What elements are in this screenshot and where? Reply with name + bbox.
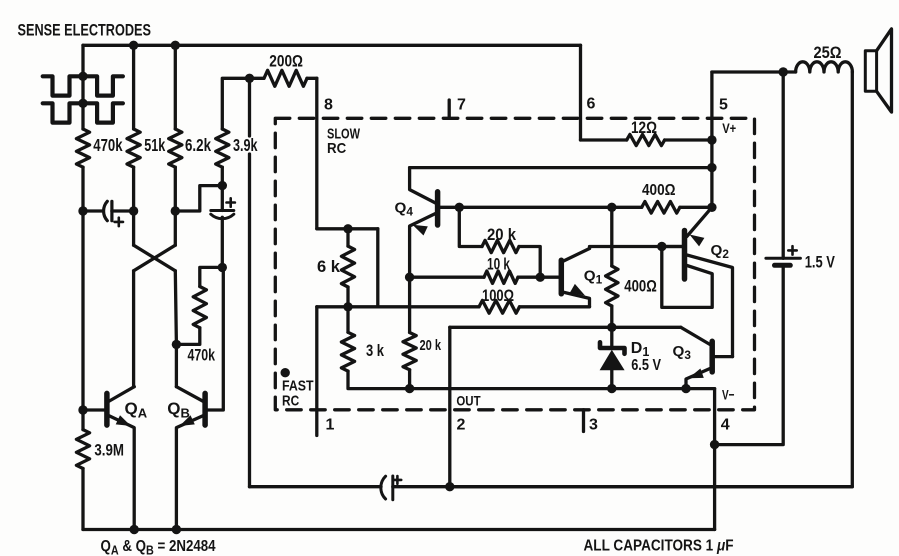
transistor QB base wire bbox=[208, 267, 224, 410]
junction 470k / C1 bbox=[78, 206, 87, 215]
svg-text:6.2k: 6.2k bbox=[185, 135, 211, 155]
resistor 3k bbox=[346, 307, 349, 333]
junction 200 ohm / 3.9k / long vertical bbox=[245, 74, 254, 83]
pin 1 wire (fast RC) bbox=[315, 307, 318, 436]
transistor Q4 collector bbox=[410, 168, 436, 203]
resistor 12 ohm bbox=[581, 138, 627, 141]
wire (Q1 collector to Q2 base) bbox=[590, 247, 683, 249]
wire (long vertical to bottom capacitor rail) bbox=[248, 154, 251, 487]
svg-text:20 k: 20 k bbox=[487, 226, 517, 244]
wire (electrode column through combs) bbox=[81, 76, 84, 129]
svg-text:8: 8 bbox=[324, 97, 333, 114]
svg-text:1.5 V: 1.5 V bbox=[805, 253, 835, 272]
wire (cross-couple 51k column upper) bbox=[132, 211, 135, 245]
transistor QB collector bbox=[176, 387, 203, 402]
wire (long vertical upper) bbox=[248, 78, 251, 136]
transistor Q3 collector bbox=[681, 327, 710, 344]
wire (electrode column top) bbox=[81, 45, 84, 76]
speaker (driver box) bbox=[865, 51, 876, 92]
pin 3 tick bbox=[582, 410, 585, 432]
junction 3.9k / C2 top bbox=[218, 181, 227, 190]
svg-text:4: 4 bbox=[721, 417, 730, 434]
junction 12 ohm / V+ line bbox=[707, 135, 716, 144]
wire (V- row) bbox=[410, 387, 715, 390]
capacitor C1 plus sign bbox=[115, 218, 123, 226]
transistor Q2 emitter bbox=[687, 207, 712, 236]
resistor 100 ohm bbox=[317, 305, 479, 308]
junction on bottom comb bbox=[78, 99, 87, 108]
wire (jog pin8 row down to 100ohm row) bbox=[376, 229, 379, 307]
transistor Q2 collector 1 bbox=[687, 255, 733, 357]
capacitor C3 (1uF) wire left bbox=[250, 485, 382, 488]
capacitor C2 plus sign bbox=[227, 198, 235, 206]
wire (jog 3.9k node to 6.2k node) bbox=[175, 186, 222, 211]
wire (battery top to 25 ohm junction) bbox=[782, 72, 785, 258]
transistor Q4 emitter arrow bbox=[413, 225, 428, 236]
transistor QB bar bbox=[202, 393, 208, 425]
svg-text:2: 2 bbox=[457, 417, 466, 434]
wire (cross-couple diagonal A) bbox=[134, 245, 176, 271]
wire (6.2k bottom) bbox=[174, 167, 177, 211]
transistor Q4 base wire bbox=[440, 206, 459, 209]
junction C2 bottom / 470k-2 / QB base riser bbox=[218, 263, 227, 272]
wire (C2 bottom to 470k-2) bbox=[200, 267, 223, 286]
transistor Q1 collector bbox=[563, 249, 590, 262]
resistor 20k (vertical) bbox=[408, 277, 411, 332]
resistor 10k bbox=[410, 276, 484, 279]
junction V+ / internal top wire bbox=[707, 163, 716, 172]
wire (3.9k bottom to C2) bbox=[221, 167, 224, 185]
junction V+ / 400 ohm / Q2 emitter bbox=[707, 203, 716, 212]
svg-text:SENSE ELECTRODES: SENSE ELECTRODES bbox=[18, 21, 152, 40]
svg-text:V+: V+ bbox=[722, 120, 736, 136]
capacitor C2 straight plate bbox=[211, 209, 234, 212]
svg-text:3.9k: 3.9k bbox=[233, 135, 258, 155]
resistor 400 ohm (vertical) bbox=[610, 207, 613, 266]
junction on top comb bbox=[78, 72, 87, 81]
resistor 3.9M bbox=[76, 430, 89, 469]
wire (QA base junction to 3.9M) bbox=[81, 410, 84, 430]
battery B1 plus sign bbox=[788, 246, 796, 254]
junction 6k bottom / 3k top bbox=[343, 302, 352, 311]
junction 10k / 20k / Q1 base bbox=[536, 273, 545, 282]
capacitor C3 plus sign bbox=[394, 476, 402, 484]
svg-text:OUT: OUT bbox=[456, 394, 481, 409]
junction bottom rail / QB emitter bbox=[172, 525, 181, 534]
svg-text:470k: 470k bbox=[93, 135, 122, 155]
wire (pin8 row to 6k) bbox=[317, 227, 378, 230]
transistor Q3 emitter bbox=[686, 369, 710, 389]
wire (left column cap junction to QA base) bbox=[81, 211, 84, 410]
svg-text:6.5 V: 6.5 V bbox=[631, 357, 661, 374]
junction top rail / 6.2k bbox=[171, 41, 180, 50]
transistor QA collector bbox=[109, 387, 135, 402]
junction 25 ohm / battery bbox=[779, 67, 788, 76]
pin 7 tick bbox=[448, 100, 451, 118]
svg-text:400Ω: 400Ω bbox=[642, 182, 676, 199]
transistor Q2 collector 2 (to base loop) bbox=[662, 247, 712, 308]
wire (QA collector column) bbox=[132, 271, 136, 387]
svg-text:V−: V− bbox=[722, 387, 735, 403]
svg-text:3 k: 3 k bbox=[366, 342, 385, 360]
speaker (cone) bbox=[877, 29, 892, 112]
resistor 3.9k bbox=[216, 129, 229, 167]
transistor Q2 emitter arrow bbox=[690, 235, 705, 247]
svg-text:25Ω: 25Ω bbox=[814, 43, 842, 62]
transistor Q1 bar bbox=[559, 260, 565, 294]
pin 5 wire (V+ vertical) bbox=[710, 72, 713, 207]
svg-text:10 k: 10 k bbox=[487, 256, 511, 274]
capacitor C2 curved plate bbox=[211, 214, 234, 218]
resistor 470k (coupling) bbox=[193, 287, 206, 328]
capacitor C3 wire right bbox=[393, 485, 853, 488]
capacitor C3 curved plate bbox=[381, 476, 386, 499]
wire (3.9M to bottom rail) bbox=[81, 469, 84, 530]
junction 6.2k node bbox=[171, 206, 180, 215]
transistor Q3 emitter arrow bbox=[689, 369, 704, 379]
transistor Q3 bar bbox=[709, 341, 715, 372]
resistor 20k (horizontal) bbox=[459, 207, 482, 246]
diode D1 wire bottom bbox=[610, 370, 613, 388]
svg-text:200Ω: 200Ω bbox=[269, 51, 303, 70]
pin 8 wire (200 ohm into package) bbox=[315, 78, 318, 229]
IC package outline (dashed) bbox=[275, 118, 754, 410]
transistor QA emitter bbox=[109, 416, 135, 530]
capacitor C1 straight plate bbox=[110, 201, 113, 220]
svg-text:400Ω: 400Ω bbox=[624, 276, 657, 295]
junction bottom rail / QA emitter bbox=[130, 525, 139, 534]
junction 470k-2 / QB collector column bbox=[172, 340, 181, 349]
junction D1 bottom / V- row bbox=[607, 384, 616, 393]
capacitor C2 (1uF) wires bbox=[221, 186, 224, 211]
transistor Q4 bar bbox=[435, 192, 441, 225]
wire (3.9k column top to 200 ohm junction) bbox=[222, 78, 249, 129]
transistor Q2 bar bbox=[682, 231, 688, 280]
resistor 200 ohm bbox=[250, 77, 265, 80]
wire (OUT row) bbox=[450, 326, 681, 329]
wire (pin4 to battery column) bbox=[715, 267, 784, 445]
sense electrode (bottom comb) bbox=[43, 103, 123, 122]
node marker FAST RC bbox=[281, 368, 290, 377]
resistor 51k bbox=[127, 129, 140, 167]
capacitor C1 (1uF) curved plate bbox=[104, 201, 108, 220]
junction Q4 base row / 400 ohm vertical bbox=[607, 203, 616, 212]
transistor QA base wire bbox=[83, 408, 104, 411]
battery B1 positive plate bbox=[766, 257, 801, 260]
svg-text:RC: RC bbox=[327, 140, 346, 157]
svg-text:100Ω: 100Ω bbox=[482, 286, 514, 305]
junction QA base / left column bbox=[78, 405, 87, 414]
junction 10k / Q4 emitter column bbox=[405, 273, 414, 282]
svg-text:20 k: 20 k bbox=[420, 338, 442, 354]
pin 6 wire (top rail into package) bbox=[579, 45, 582, 140]
wire (Q4 base row) bbox=[459, 206, 612, 209]
pin 4 wire bbox=[713, 389, 716, 530]
wire (pin5 top to 25 ohm) bbox=[712, 70, 783, 73]
resistor 6k bbox=[346, 229, 349, 246]
wire (bottom rail) bbox=[83, 528, 715, 531]
diode D1 wire top bbox=[610, 327, 613, 346]
svg-text:51k: 51k bbox=[144, 135, 165, 155]
junction pin4 / battery return bbox=[710, 440, 719, 449]
resistor 400 ohm (to V+) bbox=[612, 206, 642, 209]
pin 2 wire (OUT) bbox=[448, 327, 451, 486]
battery B1 negative plate bbox=[775, 263, 791, 268]
transistor QA bar bbox=[104, 393, 110, 425]
diode D1 cathode bar bbox=[600, 342, 625, 354]
transistor Q1 emitter arrow bbox=[570, 284, 585, 296]
wire (internal top rail) bbox=[410, 166, 712, 169]
svg-text:12Ω: 12Ω bbox=[631, 118, 657, 137]
transistor Q1 emitter bbox=[563, 292, 590, 307]
transistor QB emitter arrow bbox=[180, 415, 195, 426]
svg-text:ALL CAPACITORS 1 μF: ALL CAPACITORS 1 μF bbox=[584, 538, 734, 555]
wire (470k bottom to cap junction) bbox=[81, 167, 84, 211]
junction 6k top bbox=[343, 224, 352, 233]
svg-text:3.9M: 3.9M bbox=[94, 441, 124, 460]
inductor 25 ohm (voice coil) bbox=[783, 70, 795, 73]
wire (cross-couple 6.2k column upper) bbox=[174, 211, 177, 245]
svg-text:RC: RC bbox=[282, 393, 299, 410]
transistor Q2 base wire bbox=[662, 245, 682, 248]
svg-text:6: 6 bbox=[587, 96, 596, 113]
junction C3 / pin 2 bbox=[445, 482, 454, 491]
wire (470k-2 bottom to QB collector column) bbox=[176, 328, 199, 345]
transistor Q4 emitter bbox=[410, 214, 436, 278]
wire (top rail from electrodes to pin 6) bbox=[83, 44, 581, 47]
wire (speaker return) bbox=[450, 72, 853, 487]
wire (51k column top) bbox=[132, 45, 135, 129]
transistor Q3 base wire bbox=[715, 355, 733, 358]
capacitor C3 straight plate bbox=[391, 476, 394, 500]
svg-text:3: 3 bbox=[589, 417, 598, 434]
junction Q4 base / 20k bbox=[455, 203, 464, 212]
junction 51k / C1 bbox=[129, 206, 138, 215]
junction top rail / 51k bbox=[129, 41, 138, 50]
svg-text:6 k: 6 k bbox=[317, 258, 341, 276]
capacitor C1 wires bbox=[83, 209, 102, 212]
transistor QA emitter arrow bbox=[116, 415, 131, 426]
svg-text:1: 1 bbox=[326, 417, 335, 434]
sense electrode (top comb) bbox=[43, 76, 123, 95]
transistor QB emitter bbox=[176, 416, 203, 530]
resistor 6.2k bbox=[169, 129, 182, 167]
junction Q3 emitter / V- row bbox=[681, 384, 690, 393]
wire (6.2k column top) bbox=[174, 45, 177, 129]
wire (51k bottom) bbox=[132, 167, 135, 211]
junction Q2 base / collector loop bbox=[657, 242, 666, 251]
svg-text:5: 5 bbox=[719, 97, 728, 114]
svg-text:7: 7 bbox=[457, 97, 466, 114]
wire (Q1 base) bbox=[540, 276, 559, 279]
wire (cross-couple diagonal B) bbox=[134, 245, 176, 271]
svg-text:470k: 470k bbox=[188, 346, 216, 365]
junction OUT / D1 top bbox=[607, 323, 616, 332]
diode D1 triangle bbox=[600, 350, 625, 371]
svg-text:QA & QB = 2N2484: QA & QB = 2N2484 bbox=[101, 538, 217, 556]
resistor 470k (left column) bbox=[76, 129, 89, 167]
wire (QB collector column) bbox=[175, 271, 176, 387]
junction 20k bottom / V- row bbox=[405, 384, 414, 393]
